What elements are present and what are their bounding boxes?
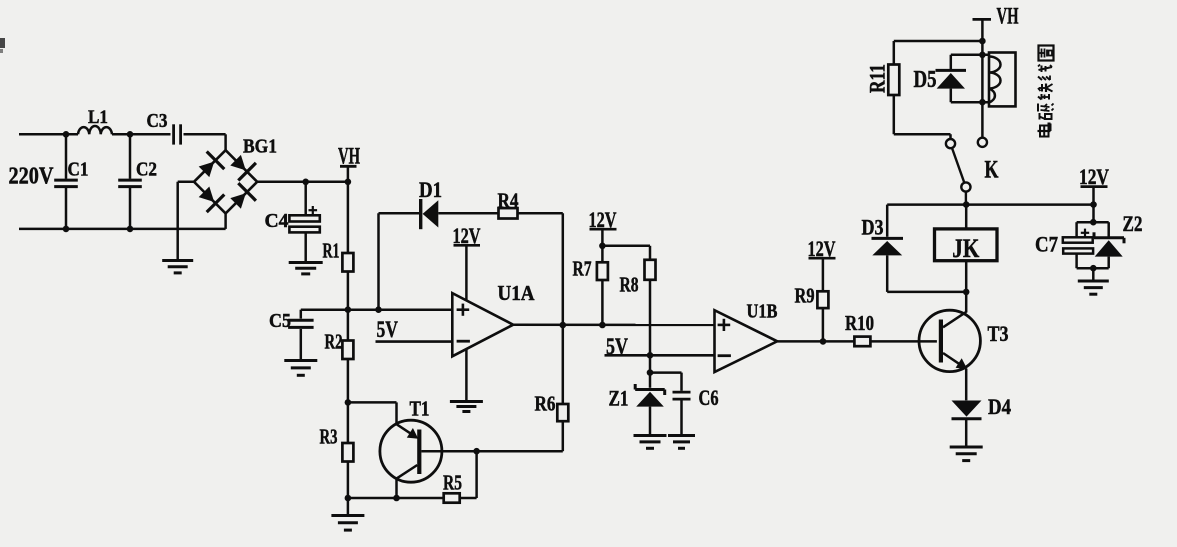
svg-text:Z2: Z2 [1123,211,1143,236]
node bottom left [345,495,352,502]
zener Z2 [1094,236,1124,239]
svg-text:U1B: U1B [747,301,778,323]
svg-text:R6: R6 [535,392,556,416]
wire 12V to R8 [602,245,650,248]
ground C6 [668,434,695,437]
label R11 [865,64,890,93]
svg-text:VH: VH [997,4,1019,29]
wire JK bottom stem [965,261,968,292]
wire R6 stem up [562,325,565,404]
wire R2 to node [347,359,350,443]
wire R1 to node [347,272,350,341]
bridge BG1 diamond [194,150,257,213]
wire C7Z2 top split [1077,221,1109,224]
node 12V split [599,243,606,250]
svg-text:BG1: BG1 [243,136,277,158]
node C7Z2 top [1090,219,1097,226]
wire plus input U1A [348,308,452,311]
svg-text:C6: C6 [699,385,719,410]
relay JK [935,229,998,261]
switch K contact right [978,138,987,147]
bridge diode top-left [199,162,215,178]
svg-text:C4: C4 [265,210,289,232]
wire R3 to bottom [347,462,350,516]
bridge diode bottom-right [230,193,246,209]
wire U1A output [513,323,714,326]
svg-text:R8: R8 [620,273,639,297]
wire U1A ground stem [465,349,468,402]
op-amp U1A [452,293,513,356]
node switch bottom [963,201,970,208]
svg-text:R4: R4 [498,189,519,213]
capacitor C4 [304,182,307,216]
node R4-R6 junction [560,322,567,329]
wire node to C5 [301,308,348,311]
wire top rail [887,203,1093,206]
resistor R2 [342,341,353,360]
node R7 junction [599,322,606,329]
switch K contact left [946,139,955,148]
bridge diode top-right [230,155,246,171]
svg-text:D1: D1 [419,177,442,202]
node T1 collector branch [345,399,352,406]
svg-text:C2: C2 [136,159,157,181]
resistor R1 [342,253,353,272]
svg-text:C1: C1 [68,159,89,181]
wire D3 branch [886,205,889,237]
svg-text:R5: R5 [443,471,462,495]
svg-text:R3: R3 [320,425,338,449]
wire bridge bottom stem [224,213,227,229]
diode D5 [936,69,967,72]
svg-text:Z1: Z1 [609,386,629,411]
node C7Z2 bottom [1090,265,1097,272]
resistor R7 [597,262,608,280]
electromagnet coil [989,53,1016,107]
node R11 branch [979,38,986,45]
wire bottom run [348,497,444,500]
svg-text:K: K [985,157,999,184]
ground C5 [284,359,317,362]
ground C4 [289,261,323,264]
node C4 top [302,179,309,186]
node C2 top [127,131,134,138]
wire D1 branch up [377,213,380,309]
node Z1 branch top [647,352,654,359]
resistor R8 [645,260,656,280]
bridge diode bottom-left [199,187,215,203]
svg-text:5V: 5V [377,317,399,343]
ground U1A [450,400,483,403]
svg-text:C5: C5 [269,310,291,332]
node 12V right [1090,201,1097,208]
svg-text:D3: D3 [862,215,884,240]
wire T3 collector [965,292,968,313]
wire R11 branch [894,40,983,43]
diode D1 [419,199,422,229]
svg-text:R9: R9 [795,284,815,308]
node VH [345,179,352,186]
ground right [1078,280,1109,283]
diode D4 [952,401,982,417]
wire JK top stem [965,205,968,229]
svg-text:JK: JK [952,234,980,263]
node C2 bottom [127,226,134,233]
wire bridge to VH [257,181,348,184]
wire minus input U1B [605,354,715,357]
node C1 bottom [63,226,70,233]
wire R4 to output node [518,212,563,215]
resistor R3 [342,443,353,462]
ground Z1 [634,434,667,437]
svg-text:R11: R11 [865,64,890,93]
resistor R6 [557,404,568,421]
capacitor C5 [300,310,303,319]
resistor R9 [817,291,828,308]
capacitor C3 [172,124,175,144]
svg-text:R7: R7 [573,257,592,281]
svg-text:C7: C7 [1035,232,1058,257]
op-amp U1B [715,310,778,372]
wire C7Z2 bottom join [1077,267,1109,270]
capacitor C2 [129,135,132,179]
capacitor C1 [65,135,68,179]
wire bottom AC [19,228,226,231]
svg-text:220V: 220V [9,164,55,190]
wire D5 bottom [951,101,989,104]
zener Z1 [635,388,665,391]
wire minus input U1A [376,340,453,343]
wire collector branch T1 [348,401,397,404]
wire D1 to R4 [438,212,498,215]
wire R8 bottom [649,280,652,355]
resistor R4 [499,208,518,218]
node JK bottom [963,289,970,296]
svg-text:R10: R10 [845,311,874,335]
node divider mid [345,306,352,313]
switch K pole [961,182,970,191]
wire VH vertical [347,166,350,253]
svg-text:T3: T3 [988,321,1009,346]
svg-text:R1: R1 [323,239,340,263]
transistor T3 [919,310,980,371]
resistor R5 [444,493,460,502]
svg-text:L1: L1 [88,107,108,128]
svg-text:R2: R2 [325,330,343,354]
transistor T1 [380,420,442,482]
ground bridge [162,259,193,262]
ground D4 [950,446,983,449]
wire R9 bottom [822,308,825,341]
scan artifact left edge [0,38,5,48]
wire C3 to bridge top [184,133,226,136]
node base R5 [473,448,480,455]
node coil top [979,52,986,59]
switch K arm [952,148,964,183]
node coil bottom [979,99,986,106]
node Z1-C6 [647,369,654,376]
wire R5 up to base line [460,497,477,500]
svg-text:U1A: U1A [498,281,536,305]
wire C6 branch [650,371,682,374]
svg-text:T1: T1 [410,397,430,421]
capacitor C6 [673,391,691,394]
resistor R11 [888,65,899,96]
resistor R10 [854,337,870,347]
wire VH stem [981,19,984,137]
wire U1B output [777,340,855,343]
node C1 top [63,131,70,138]
label electromagnet coil (Chinese) [1039,46,1054,61]
diode D3 [872,237,904,240]
wire R7 bottom [601,280,604,325]
wire D5 left [950,55,953,69]
node emitter bottom [393,495,400,502]
ground main left [331,514,364,517]
node D1 branch [375,306,382,313]
svg-text:D4: D4 [988,394,1011,419]
node R9 junction [820,338,827,345]
wire top AC [19,133,78,136]
wire R10 to T3 base [870,340,937,343]
svg-text:D5: D5 [914,67,937,93]
wire bridge left to ground [178,181,194,184]
wire D5 top [951,54,989,57]
inductor L1 [78,126,112,134]
wire T3 emitter to D4 [965,369,968,401]
capacitor C7 [1063,237,1093,242]
wire T1 base line [421,450,562,453]
wire Z1 stem [649,355,652,388]
svg-text:C3: C3 [147,110,168,132]
